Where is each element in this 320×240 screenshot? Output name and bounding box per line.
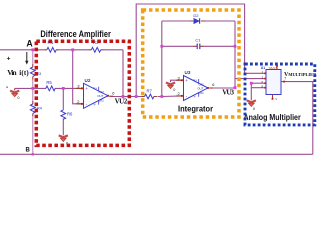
resistor R5 bbox=[45, 80, 56, 91]
junction multiplier ground bbox=[250, 82, 253, 85]
ground 0 Vin bbox=[10, 88, 19, 99]
junction A branch at B rail bbox=[32, 153, 34, 155]
box Difference Amplifier red dotted bbox=[36, 41, 129, 145]
junction VU2 riser bbox=[135, 95, 138, 98]
wire: integrator feedback left vertical bbox=[161, 21, 163, 97]
box Integrator orange dotted bbox=[143, 10, 239, 117]
wire: mid net ground-R5-U2pin3 bbox=[15, 87, 82, 89]
svg-text:0: 0 bbox=[17, 96, 19, 100]
svg-text:V+: V+ bbox=[193, 78, 197, 82]
svg-text:+: + bbox=[7, 56, 11, 63]
junction mid net A branch bbox=[31, 87, 34, 90]
wire: VU2 output net through R7 to U3 pin2 bbox=[110, 95, 183, 98]
svg-text:B: B bbox=[26, 148, 31, 154]
ground 0 U3 bbox=[166, 83, 175, 93]
svg-text:Analog Multiplier: Analog Multiplier bbox=[244, 113, 302, 122]
wire: VU3 tap to multiplier pin2 bbox=[235, 78, 266, 80]
svg-text:OS1: OS1 bbox=[98, 99, 104, 103]
svg-text:V-: V- bbox=[93, 102, 96, 106]
svg-text:MULT: MULT bbox=[269, 66, 277, 70]
junction node A bbox=[31, 48, 34, 51]
svg-text:+: + bbox=[85, 86, 88, 91]
wire: R2 drop to output net bbox=[122, 50, 124, 97]
wire: A-B vertical branch bbox=[32, 50, 34, 155]
svg-text:V-: V- bbox=[193, 95, 196, 99]
svg-text:-: - bbox=[6, 84, 8, 91]
resistor R6 bbox=[61, 110, 73, 120]
svg-text:OUT: OUT bbox=[197, 86, 203, 90]
box Analog Multiplier blue dotted bbox=[245, 64, 315, 125]
svg-text:R6: R6 bbox=[67, 111, 73, 116]
i(t) arrow bbox=[25, 52, 28, 65]
svg-text:+: + bbox=[185, 78, 188, 83]
svg-text:OS1: OS1 bbox=[198, 91, 204, 95]
resistor R2 bbox=[88, 47, 103, 52]
svg-text:R5: R5 bbox=[46, 80, 52, 85]
svg-text:VU3: VU3 bbox=[222, 89, 234, 97]
op-amp U3 bbox=[176, 70, 215, 101]
svg-text:U3: U3 bbox=[185, 70, 191, 75]
junction R5 R6 node bbox=[62, 87, 65, 90]
wire: VU2 riser top route to multiplier bbox=[136, 4, 266, 97]
svg-text:V+: V+ bbox=[93, 86, 97, 90]
wire: feedback right vertical bbox=[234, 21, 236, 88]
wire: B bottom rail bbox=[0, 153, 313, 155]
svg-text:R7: R7 bbox=[147, 88, 153, 93]
svg-text:R2: R2 bbox=[93, 40, 99, 45]
svg-text:U2: U2 bbox=[85, 78, 91, 83]
resistor R3 on A branch bbox=[30, 64, 41, 80]
svg-text:0: 0 bbox=[253, 107, 255, 111]
svg-text:i(t): i(t) bbox=[19, 69, 29, 77]
svg-text:C1: C1 bbox=[195, 37, 201, 42]
wire: top input net A with R1 R2 bbox=[0, 49, 123, 51]
diode D2 bbox=[190, 13, 206, 24]
wire: multiplier grounded pins bbox=[251, 83, 266, 100]
junction VU3 bbox=[234, 86, 237, 89]
wire: U3 pin3 ground stub bbox=[171, 80, 183, 82]
svg-text:R1: R1 bbox=[48, 40, 54, 45]
svg-text:OUT: OUT bbox=[97, 94, 103, 98]
junction feedback bottom bbox=[160, 95, 163, 98]
svg-text:U1: U1 bbox=[261, 66, 265, 70]
resistor R7 bbox=[142, 88, 157, 99]
junction C1 left bbox=[160, 45, 163, 48]
capacitor C1 bbox=[192, 37, 204, 49]
svg-text:A: A bbox=[26, 39, 33, 49]
ground 0 multiplier bbox=[247, 100, 256, 111]
junction C1 right bbox=[234, 45, 237, 48]
wire: feedback C1 wire bbox=[162, 45, 235, 47]
svg-text:Difference Amplifier: Difference Amplifier bbox=[40, 29, 111, 39]
op-amp U2 bbox=[76, 78, 115, 109]
junction pin2 tap bbox=[71, 48, 74, 51]
wire: U2 pin2 riser from top net bbox=[73, 50, 82, 104]
junction R2 drop bbox=[122, 95, 125, 98]
svg-text:Integrator: Integrator bbox=[178, 104, 214, 113]
svg-text:Vin: Vin bbox=[7, 68, 16, 77]
svg-text:-V: -V bbox=[275, 97, 278, 101]
svg-text:D2: D2 bbox=[193, 13, 199, 18]
svg-text:0: 0 bbox=[173, 88, 175, 92]
wire: feedback top wire with D2 bbox=[162, 20, 235, 22]
resistor R4 on A branch bbox=[30, 101, 41, 116]
resistor R1 bbox=[44, 47, 59, 52]
wire: R6 branch down to ground bbox=[62, 88, 64, 135]
multiplier U1 bbox=[262, 65, 287, 101]
ground 0 R6 bbox=[59, 135, 68, 145]
wire: U3 output to VU3 junction bbox=[212, 87, 236, 89]
svg-text:VU2: VU2 bbox=[115, 97, 128, 105]
wire: multiplier output to right edge bbox=[287, 82, 313, 155]
